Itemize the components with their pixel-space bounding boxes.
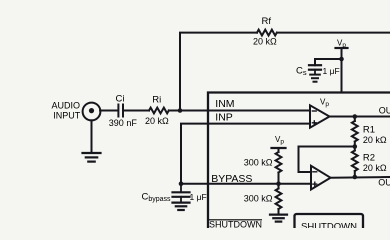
- supply Vp rail 300k divider: [272, 148, 286, 152]
- svg-text:20 kΩ: 20 kΩ: [363, 163, 387, 173]
- resistor Rbias lower 300k: [276, 184, 282, 214]
- wire jack ground drop: [91, 120, 93, 152]
- node output1 junction: [353, 114, 358, 119]
- svg-text:R1: R1: [363, 125, 375, 136]
- svg-text:Cs: Cs: [296, 66, 307, 78]
- label pin SHUTDOWN: [209, 220, 262, 230]
- wire Ci to Ri: [123, 110, 149, 112]
- wire feedback U1B: [299, 147, 355, 173]
- block SHUTDOWN circuit: [295, 214, 364, 234]
- audio input jack J1: [83, 103, 101, 121]
- svg-text:OUT: OUT: [378, 178, 390, 188]
- svg-text:OUT: OUT: [379, 106, 390, 116]
- svg-text:1 μF: 1 μF: [323, 66, 340, 76]
- wire output2: [331, 176, 390, 179]
- op-amp U1A: [310, 105, 330, 127]
- svg-text:INP: INP: [215, 111, 233, 123]
- node Cs tap: [339, 57, 344, 62]
- wire INP to amplifier: [181, 124, 310, 184]
- svg-text:20 kΩ: 20 kΩ: [145, 116, 169, 126]
- svg-text:Rf: Rf: [262, 16, 272, 27]
- node bias junction: [276, 181, 281, 186]
- svg-text:R2: R2: [363, 153, 375, 164]
- wire Vp to Cs: [315, 59, 342, 65]
- svg-text:300 kΩ: 300 kΩ: [244, 158, 273, 168]
- svg-text:300 kΩ: 300 kΩ: [244, 194, 273, 204]
- wire jack to Ci: [100, 110, 117, 112]
- svg-text:AUDIO: AUDIO: [52, 101, 81, 111]
- node feedback-INM junction: [178, 108, 183, 113]
- svg-text:INPUT: INPUT: [53, 111, 81, 121]
- svg-text:20 kΩ: 20 kΩ: [363, 135, 387, 145]
- svg-text:1 μF: 1 μF: [190, 192, 207, 202]
- svg-text:Ri: Ri: [152, 95, 161, 106]
- wire output1: [330, 116, 390, 118]
- ground 300k: [270, 215, 287, 222]
- wire feedback top: [180, 33, 257, 111]
- svg-text:Ci: Ci: [116, 94, 125, 105]
- resistor Rf: [257, 30, 277, 36]
- resistor Ri: [149, 108, 169, 114]
- capacitor Cs: [309, 65, 321, 74]
- svg-text:INM: INM: [215, 98, 234, 110]
- capacitor Ci: [118, 105, 123, 117]
- svg-text:BYPASS: BYPASS: [211, 173, 252, 185]
- wire feedback to right edge: [277, 32, 390, 34]
- svg-text:20 kΩ: 20 kΩ: [253, 37, 277, 47]
- resistor Rbias upper 300k: [276, 152, 282, 184]
- ground input: [83, 153, 101, 162]
- node output2 junction: [353, 175, 358, 180]
- resistor R2: [352, 147, 358, 178]
- wire Ri to INM input of U1: [169, 110, 310, 112]
- op-amp U1B: [311, 166, 331, 190]
- resistor R1: [352, 117, 358, 147]
- capacitor Cbypass: [173, 184, 190, 203]
- svg-text:390 nF: 390 nF: [109, 118, 138, 128]
- svg-text:SHUTDOWN: SHUTDOWN: [301, 222, 357, 229]
- svg-text:SHUTDOWN: SHUTDOWN: [209, 220, 262, 229]
- wire BYPASS: [181, 183, 311, 185]
- label AUDIO INPUT: [52, 101, 81, 121]
- node R1-R2 junction: [353, 144, 358, 149]
- ground Cbypass: [173, 203, 190, 210]
- supply Vp rail top: [336, 48, 348, 93]
- node BYPASS junction: [179, 181, 184, 186]
- ground Cs: [310, 75, 320, 82]
- IC U1 outline box: [208, 93, 390, 229]
